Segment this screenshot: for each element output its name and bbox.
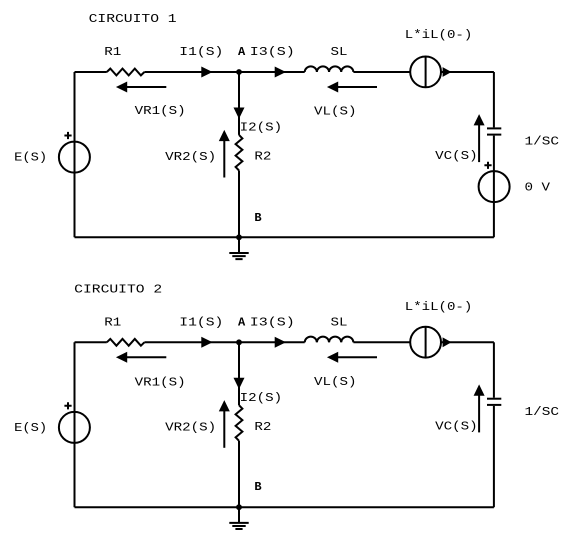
voltage arrow VL(S) (circuit 1) xyxy=(329,83,377,91)
svg-text:B: B xyxy=(254,211,261,225)
capacitor 1/SC top plate (circuit 2) xyxy=(487,398,501,400)
node A junction dot (circuit 1) xyxy=(236,69,242,75)
svg-text:R1: R1 xyxy=(104,45,121,59)
label I3(S) (circuit 2) xyxy=(250,315,295,329)
wire right vertical upper (circuit 1) xyxy=(493,72,495,127)
label VR1(S) (circuit 1) xyxy=(135,104,186,118)
svg-text:R2: R2 xyxy=(254,149,271,163)
svg-text:VC(S): VC(S) xyxy=(435,420,478,434)
current arrow I2(S) (circuit 1) xyxy=(235,109,243,117)
wire bottom horizontal (circuit 1) xyxy=(75,236,494,238)
current source L*iL(0-) circle (circuit 1) xyxy=(410,57,441,88)
wire bottom horizontal (circuit 2) xyxy=(75,506,494,508)
current arrow I3(S) (circuit 2) xyxy=(276,338,284,346)
current arrow I1(S) (circuit 2) xyxy=(202,338,210,346)
wire middle branch upper (circuit 1) xyxy=(238,72,240,135)
wire from current source to top-right corner (circuit 2) xyxy=(441,341,494,343)
current source bar (circuit 2) xyxy=(425,327,427,358)
svg-text:E(S): E(S) xyxy=(14,421,47,435)
inductor SL (circuit 2) xyxy=(305,337,354,343)
title CIRCUITO 2 xyxy=(74,283,162,297)
svg-text:R1: R1 xyxy=(104,315,121,329)
svg-text:VR1(S): VR1(S) xyxy=(135,375,186,389)
svg-text:R2: R2 xyxy=(254,420,271,434)
plus sign of E(S) source (circuit 1) xyxy=(64,132,71,139)
svg-text:L*iL(0-): L*iL(0-) xyxy=(405,300,473,314)
node B junction dot (circuit 2) xyxy=(236,504,242,510)
svg-text:E(S): E(S) xyxy=(14,151,47,165)
wire right vertical upper (circuit 2) xyxy=(493,342,495,397)
voltage arrow VC(S) (circuit 2) xyxy=(475,387,483,433)
capacitor 1/SC bottom plate (circuit 1) xyxy=(487,134,501,136)
label SL (circuit 1) xyxy=(331,45,348,59)
voltage arrow VR2(S) (circuit 2) xyxy=(220,402,228,447)
svg-text:I2(S): I2(S) xyxy=(240,391,283,405)
svg-text:0 V: 0 V xyxy=(525,181,551,195)
current arrow I2(S) (circuit 2) xyxy=(235,379,243,387)
label VR1(S) (circuit 2) xyxy=(135,375,186,389)
current source L*iL(0-) circle (circuit 2) xyxy=(410,327,441,358)
capacitor 1/SC bottom plate (circuit 2) xyxy=(487,404,501,406)
svg-text:I1(S): I1(S) xyxy=(179,315,223,329)
svg-text:L*iL(0-): L*iL(0-) xyxy=(405,28,473,42)
inductor SL (circuit 1) xyxy=(305,66,354,72)
svg-text:CIRCUITO 2: CIRCUITO 2 xyxy=(74,283,162,297)
svg-text:I3(S): I3(S) xyxy=(250,315,295,329)
label R1 (circuit 1) xyxy=(104,45,121,59)
label VR2(S) (circuit 1) xyxy=(165,150,216,164)
svg-text:VC(S): VC(S) xyxy=(435,149,478,163)
wire left vertical (circuit 2) xyxy=(74,342,76,507)
label I3(S) (circuit 1) xyxy=(250,45,295,59)
label I1(S) (circuit 2) xyxy=(179,315,223,329)
label E(S) (circuit 1) xyxy=(14,151,47,165)
node label B (circuit 2) xyxy=(254,480,261,494)
svg-text:SL: SL xyxy=(331,45,348,59)
ground symbol (circuit 2) xyxy=(229,507,248,529)
current source bar (circuit 1) xyxy=(425,57,427,88)
svg-text:VL(S): VL(S) xyxy=(314,104,357,118)
voltage arrow VR1(S) (circuit 2) xyxy=(118,353,166,361)
node A junction dot (circuit 2) xyxy=(236,339,242,345)
plus sign of E(S) source (circuit 2) xyxy=(64,402,71,409)
node label A (circuit 2) xyxy=(238,315,246,329)
wire right vertical lower (circuit 1) xyxy=(493,136,495,238)
wire top segment right (circuit 1) xyxy=(353,71,410,73)
wire middle branch upper (circuit 2) xyxy=(238,342,240,405)
voltage arrow VL(S) (circuit 2) xyxy=(329,353,377,361)
voltage arrow VR2(S) (circuit 1) xyxy=(220,132,228,177)
label SL (circuit 2) xyxy=(331,315,348,329)
label 1/SC (circuit 1) xyxy=(525,134,560,148)
resistor R1 (circuit 1) xyxy=(107,69,145,76)
resistor R2 (circuit 2) xyxy=(236,405,243,441)
svg-text:VL(S): VL(S) xyxy=(314,375,357,389)
label VC(S) (circuit 1) xyxy=(435,149,478,163)
node B junction dot (circuit 1) xyxy=(236,234,242,240)
label VL(S) (circuit 1) xyxy=(314,104,357,118)
capacitor 1/SC top plate (circuit 1) xyxy=(487,127,501,129)
svg-text:SL: SL xyxy=(331,315,348,329)
wire left vertical (circuit 1) xyxy=(74,72,76,237)
svg-text:A: A xyxy=(238,45,246,59)
title CIRCUITO 1 xyxy=(89,12,177,26)
label VL(S) (circuit 2) xyxy=(314,375,357,389)
wire top segment right (circuit 2) xyxy=(353,341,410,343)
label L*iL(0-) (circuit 2) xyxy=(405,300,473,314)
wire top segment left (circuit 2) xyxy=(75,341,107,343)
wire middle branch lower (circuit 1) xyxy=(238,171,240,238)
label VC(S) (circuit 2) xyxy=(435,420,478,434)
current arrow I1(S) (circuit 1) xyxy=(202,68,210,76)
voltage arrow VR1(S) (circuit 1) xyxy=(118,83,166,91)
label L*iL(0-) (circuit 1) xyxy=(405,28,473,42)
label E(S) (circuit 2) xyxy=(14,421,47,435)
svg-text:VR2(S): VR2(S) xyxy=(165,421,216,435)
svg-text:B: B xyxy=(254,480,261,494)
voltage arrow VC(S) (circuit 1) xyxy=(475,116,483,162)
resistor R2 (circuit 1) xyxy=(236,135,243,171)
label 1/SC (circuit 2) xyxy=(525,405,560,419)
svg-text:I2(S): I2(S) xyxy=(240,121,283,135)
ground symbol (circuit 1) xyxy=(229,237,248,259)
svg-text:1/SC: 1/SC xyxy=(525,134,560,148)
wire top segment left (circuit 1) xyxy=(75,71,107,73)
wire top segment middle (circuit 1) xyxy=(144,71,304,73)
wire from current source to top-right corner (circuit 1) xyxy=(441,71,494,73)
svg-text:1/SC: 1/SC xyxy=(525,405,560,419)
current source output arrowhead (circuit 2) xyxy=(444,339,450,345)
label R2 (circuit 2) xyxy=(254,420,271,434)
label I1(S) (circuit 1) xyxy=(179,45,223,59)
svg-text:CIRCUITO 1: CIRCUITO 1 xyxy=(89,12,177,26)
label I2(S) (circuit 1) xyxy=(240,121,283,135)
voltage source 0 V circle xyxy=(479,171,510,202)
plus sign of 0 V source xyxy=(484,162,491,169)
svg-text:I1(S): I1(S) xyxy=(179,45,223,59)
voltage source E(S) circle (circuit 1) xyxy=(59,142,90,173)
label I2(S) (circuit 2) xyxy=(240,391,283,405)
wire middle branch lower (circuit 2) xyxy=(238,441,240,507)
label 0 V xyxy=(525,181,551,195)
resistor R1 (circuit 2) xyxy=(107,339,145,346)
svg-text:VR1(S): VR1(S) xyxy=(135,104,186,118)
svg-text:VR2(S): VR2(S) xyxy=(165,150,216,164)
voltage source E(S) circle (circuit 2) xyxy=(59,412,90,443)
current arrow I3(S) (circuit 1) xyxy=(276,68,284,76)
wire right vertical lower (circuit 2) xyxy=(493,406,495,507)
label R1 (circuit 2) xyxy=(104,315,121,329)
label VR2(S) (circuit 2) xyxy=(165,421,216,435)
svg-text:I3(S): I3(S) xyxy=(250,45,295,59)
svg-text:A: A xyxy=(238,315,246,329)
label R2 (circuit 1) xyxy=(254,149,271,163)
wire top segment middle (circuit 2) xyxy=(144,341,304,343)
node label B (circuit 1) xyxy=(254,211,261,225)
current source output arrowhead (circuit 1) xyxy=(444,69,450,75)
node label A (circuit 1) xyxy=(238,45,246,59)
